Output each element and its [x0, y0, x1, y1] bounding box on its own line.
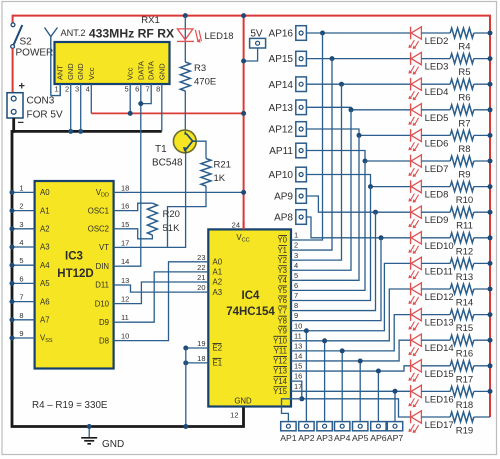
junction: R9 on right rail — [488, 159, 493, 164]
wire: LED row 4 horizontal — [359, 134, 411, 136]
svg-text:7: 7 — [294, 291, 298, 300]
resistor R15 — [450, 310, 474, 320]
IC4 pin 18 E1 stub — [186, 362, 209, 364]
resistor R5 — [450, 54, 474, 64]
svg-text:CON3: CON3 — [27, 96, 55, 107]
wire: IC4 Y14 to LED17 via drop — [301, 381, 411, 417]
svg-text:GND: GND — [234, 397, 252, 406]
wire: R4 to +5V right rail — [474, 32, 490, 34]
svg-text:Y5: Y5 — [277, 286, 287, 295]
wire: IC3 D9 to IC4 A1 — [127, 272, 200, 322]
connector AP3 — [317, 422, 332, 431]
wire: bus 6 down to IC4 Y6 — [301, 187, 371, 301]
wire: LED row 0 horizontal — [323, 32, 411, 34]
junction: AP2 tap — [304, 328, 309, 333]
LED LED6 — [410, 129, 412, 142]
svg-text:DIN: DIN — [96, 262, 109, 271]
wire: AP9 jog to LED9 row — [306, 196, 375, 212]
svg-text:R15: R15 — [456, 323, 473, 334]
svg-text:AP8: AP8 — [274, 213, 293, 224]
wire: R7 to +5V right rail — [474, 109, 490, 111]
junction: +5V line meets vertical rail — [241, 111, 246, 116]
connector AP6 — [371, 422, 386, 431]
svg-text:Y12: Y12 — [273, 357, 287, 366]
wire: R8 to +5V right rail — [474, 134, 490, 136]
IC4 pin 21 A2 stub — [200, 281, 208, 283]
wire: LED10 to R12 — [421, 237, 450, 239]
svg-text:GND: GND — [66, 63, 75, 80]
svg-text:RX1: RX1 — [141, 15, 159, 26]
svg-text:A0: A0 — [213, 258, 223, 267]
svg-text:A3: A3 — [40, 243, 50, 252]
IC3 pin 1 A0 stub — [12, 191, 35, 193]
junction: R14 on right rail — [488, 287, 493, 292]
wire: bus 3 down to IC4 Y3 — [301, 110, 352, 270]
transistor T1 — [173, 130, 196, 153]
junction: IC3 pin 1 on ground rail — [10, 190, 15, 195]
svg-text:A0: A0 — [40, 188, 50, 197]
connector 5V tap — [250, 38, 266, 48]
svg-text:6: 6 — [294, 281, 298, 290]
svg-text:D10: D10 — [95, 299, 110, 308]
svg-text:Y0: Y0 — [277, 236, 287, 245]
svg-text:Vcc: Vcc — [87, 67, 96, 80]
svg-text:8: 8 — [156, 85, 160, 94]
IC3 pin 12 D10 stub — [114, 303, 127, 305]
wire: LED row 7 horizontal — [376, 211, 411, 213]
wire: AP5 column up to Y row — [359, 361, 361, 422]
junction: VDD line on +5V rail — [241, 190, 246, 195]
IC4 pin 19 E2 stub — [186, 347, 209, 349]
svg-text:DATA: DATA — [147, 61, 156, 80]
svg-text:10: 10 — [294, 321, 302, 330]
junction: bus 2 on LED row — [339, 82, 344, 87]
resistor R12 — [450, 233, 474, 243]
LED LED7 — [410, 155, 412, 168]
junction: IC3 pin 3 on ground rail — [10, 226, 15, 231]
svg-text:A7: A7 — [40, 316, 50, 325]
wire: R14 to +5V right rail — [474, 288, 490, 290]
IC3 pin 18 VDD stub — [114, 191, 127, 193]
IC3 pin 3 A2 stub — [12, 228, 35, 230]
IC3 pin 8 A7 stub — [12, 319, 35, 321]
svg-text:A3: A3 — [213, 288, 223, 297]
resistor R11 — [450, 207, 474, 217]
junction: E-line on bottom ground rail — [183, 424, 188, 429]
svg-text:Y1: Y1 — [277, 246, 287, 255]
connector CON3 — [7, 93, 23, 118]
junction: R5 on right rail — [488, 56, 493, 61]
svg-text:AP13: AP13 — [269, 103, 294, 114]
svg-text:−: − — [18, 117, 24, 129]
IC4 pin 1 Y0 stub — [291, 239, 301, 241]
svg-text:VT: VT — [99, 243, 109, 252]
junction: IC3 pin 5 on ground rail — [10, 263, 15, 268]
LED LED3 — [410, 52, 412, 65]
wire: IC4 pin24 Vcc stub — [243, 222, 245, 229]
wire: RX1 pin1 stub — [59, 84, 61, 96]
wire: R9 to +5V right rail — [474, 160, 490, 162]
svg-text:Y7: Y7 — [277, 306, 287, 315]
svg-text:LED16: LED16 — [425, 394, 454, 405]
svg-text:6: 6 — [19, 274, 23, 283]
svg-text:R16: R16 — [456, 349, 473, 360]
svg-text:Y9: Y9 — [277, 326, 287, 335]
wire: R19 to +5V right rail — [474, 416, 490, 418]
svg-text:GND: GND — [157, 63, 166, 80]
wire: R3 to T1 collector — [184, 91, 186, 134]
svg-text:LED6: LED6 — [425, 138, 449, 149]
resistor R13 — [450, 258, 474, 268]
IC4 pin 3 Y2 stub — [291, 259, 301, 261]
svg-text:AP14: AP14 — [269, 80, 294, 91]
IC3 pin 16 OSC1 stub — [114, 210, 127, 212]
svg-text:A2: A2 — [213, 278, 223, 287]
resistor R8 — [450, 130, 474, 140]
junction: E1 tie — [183, 360, 188, 365]
connector AP13 — [296, 100, 307, 115]
svg-text:LED4: LED4 — [425, 87, 449, 98]
svg-text:12: 12 — [121, 295, 129, 304]
wire: R13 to +5V right rail — [474, 262, 490, 264]
svg-text:5: 5 — [125, 85, 129, 94]
svg-text:R18: R18 — [456, 400, 473, 411]
svg-text:14: 14 — [121, 257, 129, 266]
connector AP9 — [296, 189, 307, 204]
junction: R8 on right rail — [488, 133, 493, 138]
junction: AP1 line on Y14 drop — [299, 396, 304, 401]
junction: bus 0 on LED row — [320, 31, 325, 36]
junction: AP3 tap — [322, 338, 327, 343]
svg-text:R8: R8 — [458, 144, 470, 155]
junction: AP5 tap — [358, 358, 363, 363]
junction: IC3 pin 2 on ground rail — [10, 208, 15, 213]
svg-text:19: 19 — [197, 339, 205, 348]
connector AP15 — [296, 51, 307, 66]
svg-text:AP1: AP1 — [280, 433, 297, 443]
svg-text:7: 7 — [19, 293, 23, 302]
wire: AP6 column up to Y row — [377, 371, 379, 422]
svg-text:R21: R21 — [214, 160, 231, 171]
wire: bus 8 down to IC4 Y8 — [301, 238, 382, 321]
svg-text:ANT.2: ANT.2 — [61, 28, 86, 38]
svg-text:AP5: AP5 — [352, 433, 369, 443]
svg-text:Y8: Y8 — [277, 316, 287, 325]
resistor R4 — [450, 28, 474, 38]
wire: E1 E2 tie to ground rail — [185, 348, 187, 427]
wire: AP1 via jog to Y14 line — [282, 399, 302, 422]
wire: RX1 pin3 to ground bus — [80, 84, 82, 131]
connector AP8 — [296, 210, 307, 225]
svg-text:R4 – R19 = 330E: R4 – R19 = 330E — [32, 400, 108, 411]
svg-text:A4: A4 — [40, 261, 50, 270]
connector AP7 — [387, 422, 402, 431]
junction: DATA pins joined — [138, 101, 143, 106]
wire: LED8 to R10 — [421, 186, 450, 188]
connector AP4 — [335, 422, 350, 431]
svg-text:LED11: LED11 — [425, 266, 453, 277]
IC3 pin 17 VT stub — [114, 246, 127, 248]
wire: T1 emitter down to HT12D VT — [127, 153, 186, 248]
wire: IC4 Y13 to LED15 — [301, 366, 411, 371]
svg-text:E1: E1 — [213, 359, 223, 368]
junction: R17 on right rail — [488, 363, 493, 368]
IC4 pin 11 Y10 stub — [291, 340, 301, 342]
IC4 pin 2 Y1 stub — [291, 249, 301, 251]
junction: E2 tie — [183, 346, 188, 351]
svg-text:LED14: LED14 — [425, 343, 454, 354]
wire: OSC1 to R20 top — [127, 203, 152, 210]
svg-text:LED3: LED3 — [425, 62, 449, 73]
connector AP11 — [296, 143, 307, 158]
svg-text:R3: R3 — [194, 63, 206, 74]
wire: AP11 to bus then LED row — [306, 151, 365, 162]
resistor R10 — [450, 182, 474, 192]
svg-text:IC4: IC4 — [242, 290, 261, 302]
IC3 pin 7 A6 stub — [12, 301, 35, 303]
LED LED16 — [410, 385, 412, 398]
IC4 pin 7 Y6 stub — [291, 299, 301, 301]
LED LED17 — [410, 411, 412, 424]
wire: bus 4 down to IC4 Y4 — [301, 135, 360, 280]
wire: LED12 to R14 — [421, 288, 450, 290]
junction: IC3 pin 4 on ground rail — [10, 245, 15, 250]
svg-text:Vcc: Vcc — [126, 67, 135, 80]
IC3 pin 6 A5 stub — [12, 282, 35, 284]
junction: AP6 tap — [376, 369, 381, 374]
wire: LED14 to R16 — [421, 339, 450, 341]
junction: R15 on right rail — [488, 312, 493, 317]
svg-text:10: 10 — [121, 332, 129, 341]
wire: IC3 D11 to IC4 A3 — [127, 285, 200, 292]
wire: IC4 Y10 to LED12 — [301, 289, 411, 341]
svg-text:AP10: AP10 — [269, 170, 294, 181]
wire: LED16 to R18 — [421, 390, 450, 392]
wire: IC3 D8 to IC4 A0 — [127, 262, 200, 341]
svg-text:17: 17 — [121, 238, 129, 247]
IC4 pin 23 A0 stub — [200, 261, 208, 263]
wire: R21 bottom jog to VT line — [168, 186, 207, 247]
LED LED8 — [410, 180, 412, 193]
svg-text:AP2: AP2 — [298, 433, 315, 443]
svg-text:14: 14 — [294, 352, 302, 361]
svg-text:R12: R12 — [456, 246, 473, 257]
wire: LED13 to R15 — [421, 314, 450, 316]
IC4 pin 9 Y8 stub — [291, 320, 301, 322]
svg-text:AP11: AP11 — [269, 146, 293, 157]
svg-text:LED9: LED9 — [425, 215, 449, 226]
wire: RX1 pin5 Vcc down to +5V line — [129, 84, 131, 113]
junction: R16 on right rail — [488, 338, 493, 343]
svg-text:D8: D8 — [99, 336, 109, 345]
resistor R18 — [450, 386, 474, 396]
junction: bus 6 on LED row — [368, 184, 373, 189]
junction: bus 3 on LED row — [349, 107, 354, 112]
connector AP10 — [296, 167, 307, 182]
svg-text:R20: R20 — [163, 209, 180, 220]
junction: ground symbol on bottom rail — [87, 424, 92, 429]
switch S2 — [11, 23, 15, 27]
wire: RX1 pin7 DATA joins pin6 — [141, 84, 151, 104]
junction: IC3 pin 7 on ground rail — [10, 299, 15, 304]
connector AP16 — [296, 26, 307, 41]
svg-text:LED5: LED5 — [425, 113, 449, 124]
svg-text:A1: A1 — [213, 268, 223, 277]
LED LED2 — [410, 27, 412, 40]
junction: R7 on right rail — [488, 107, 493, 112]
IC3 pin 2 A1 stub — [12, 210, 35, 212]
IC3 pin 13 D11 stub — [114, 284, 127, 286]
wire: LED row 6 horizontal — [371, 186, 411, 188]
svg-text:DATA: DATA — [136, 61, 145, 80]
svg-text:18: 18 — [197, 354, 205, 363]
svg-text:T1: T1 — [155, 144, 167, 155]
svg-text:ANT: ANT — [56, 65, 65, 80]
svg-text:4: 4 — [19, 238, 23, 247]
IC4 pin 16 Y14 stub — [291, 380, 301, 382]
resistor R9 — [450, 156, 474, 166]
svg-text:A5: A5 — [40, 279, 50, 288]
wire: bus 0 down to IC4 Y0 — [301, 33, 323, 240]
junction: IC3 pin 6 on ground rail — [10, 281, 15, 286]
wire: AP7 column up to Y row — [394, 391, 396, 421]
svg-text:Y10: Y10 — [273, 337, 288, 346]
IC4 pin 22 A1 stub — [200, 271, 208, 273]
svg-text:LED12: LED12 — [425, 292, 454, 303]
svg-text:R9: R9 — [458, 170, 470, 181]
resistor R14 — [450, 284, 474, 294]
junction: +5V rail branch on top rail — [241, 13, 246, 18]
svg-text:GND: GND — [102, 439, 124, 450]
wire: RX1 pin6 DATA down to HT12D DIN — [127, 84, 141, 266]
wire: LED17 to R19 — [421, 416, 450, 418]
svg-text:POWER: POWER — [16, 48, 54, 59]
IC3 pin 10 D8 stub — [114, 340, 127, 342]
junction: bus 7 on LED row — [373, 210, 378, 215]
junction: pin5 on +5V line — [128, 111, 133, 116]
connector AP14 — [296, 77, 307, 92]
svg-text:Y13: Y13 — [273, 367, 287, 376]
svg-text:R5: R5 — [458, 67, 470, 78]
IC4 pin 15 Y13 stub — [291, 370, 301, 372]
IC4 74HC154 decoder — [208, 229, 291, 406]
svg-text:1K: 1K — [214, 173, 226, 184]
svg-text:15: 15 — [294, 362, 302, 371]
wire: R18 to +5V right rail — [474, 390, 490, 392]
IC4 pin 17 Y15 stub — [291, 390, 301, 392]
junction: bus 8 on LED row — [379, 235, 384, 240]
IC3 pin 14 DIN stub — [114, 265, 127, 267]
IC4 pin 14 Y12 stub — [291, 360, 301, 362]
ground symbol — [88, 427, 90, 438]
IC4 pin 6 Y5 stub — [291, 289, 301, 291]
svg-text:R14: R14 — [456, 298, 473, 309]
svg-text:A6: A6 — [40, 297, 50, 306]
junction: 5V tap on rail — [241, 59, 246, 64]
junction: IC3 pin 8 on ground rail — [10, 317, 15, 322]
LED LED4 — [410, 78, 412, 91]
svg-text:9: 9 — [19, 329, 23, 338]
svg-text:4: 4 — [86, 85, 90, 94]
svg-text:4: 4 — [294, 261, 298, 270]
wire: LED row 2 horizontal — [342, 83, 411, 85]
wire: R20 bottom to OSC2 — [127, 229, 152, 239]
wire: IC4 Y12 to LED14 — [301, 340, 411, 361]
svg-text:R6: R6 — [458, 93, 470, 104]
svg-text:13: 13 — [294, 341, 302, 350]
junction: R12 on right rail — [488, 235, 493, 240]
svg-text:11: 11 — [121, 313, 129, 322]
wire: AP13 to bus then LED row — [306, 107, 351, 110]
resistor R6 — [450, 79, 474, 89]
wire: IC4 Y9 to LED11 — [301, 263, 411, 330]
wire: LED11 to R13 — [421, 262, 450, 264]
svg-text:1: 1 — [19, 183, 23, 192]
junction: R11 on right rail — [488, 210, 493, 215]
RF receiver module RX1 — [55, 42, 170, 84]
svg-text:6: 6 — [135, 85, 139, 94]
resistor R17 — [450, 361, 474, 371]
wire: AP12 to bus then LED row — [306, 129, 359, 135]
svg-text:LED8: LED8 — [425, 190, 449, 201]
wire: R10 to +5V right rail — [474, 186, 490, 188]
svg-text:7: 7 — [146, 85, 150, 94]
svg-text:16: 16 — [294, 372, 302, 381]
wire: R15 to +5V right rail — [474, 314, 490, 316]
wire: LED row 1 horizontal — [332, 58, 411, 60]
connector AP2 — [299, 422, 314, 431]
wire: LED5 to R7 — [421, 109, 450, 111]
svg-text:3: 3 — [294, 251, 298, 260]
junction: bus 5 on LED row — [363, 159, 368, 164]
wire: RX1 pin2 to ground bus — [70, 84, 72, 131]
IC4 pin 5 Y4 stub — [291, 279, 301, 281]
LED LED12 — [410, 283, 412, 296]
wire: IC4 Y15 to LED16 — [301, 390, 411, 392]
svg-text:2: 2 — [65, 85, 69, 94]
wire: AP4 column up to Y row — [341, 351, 343, 422]
junction: R18 on right rail — [488, 389, 493, 394]
LED LED15 — [410, 360, 412, 373]
svg-text:LED18: LED18 — [205, 31, 234, 42]
wire: ground bus from CON3 minus, left rail and bottom rail — [12, 118, 244, 427]
svg-text:Y6: Y6 — [277, 296, 287, 305]
svg-text:11: 11 — [294, 331, 302, 340]
wire: LED7 to R9 — [421, 160, 450, 162]
svg-text:16: 16 — [121, 202, 129, 211]
wire: AP2 column up to Y row — [305, 331, 307, 422]
wire: LED4 to R6 — [421, 83, 450, 85]
IC3 pin 4 A3 stub — [12, 246, 35, 248]
svg-text:433MHz RF RX: 433MHz RF RX — [89, 27, 175, 41]
svg-text:AP16: AP16 — [269, 29, 294, 40]
junction: AP4 tap — [340, 348, 345, 353]
wire: RX1 pin4 Vcc down to +5V line — [90, 84, 92, 113]
svg-text:Y3: Y3 — [277, 266, 287, 275]
wire: R16 to +5V right rail — [474, 339, 490, 341]
wire: IC3 D10 to IC4 A2 — [127, 282, 200, 304]
wire: 5V tap to rail — [244, 48, 258, 61]
svg-text:Y14: Y14 — [273, 377, 288, 386]
svg-text:R4: R4 — [458, 42, 470, 53]
svg-text:S2: S2 — [20, 37, 33, 48]
junction: bus 4 on LED row — [357, 133, 362, 138]
wire: RX1 pin8 GND down to ground segment — [161, 84, 163, 131]
wire: bus 7 down to IC4 Y7 — [301, 212, 376, 310]
svg-text:R17: R17 — [456, 374, 473, 385]
wire: R12 to +5V right rail — [474, 237, 490, 239]
svg-text:A2: A2 — [40, 225, 50, 234]
